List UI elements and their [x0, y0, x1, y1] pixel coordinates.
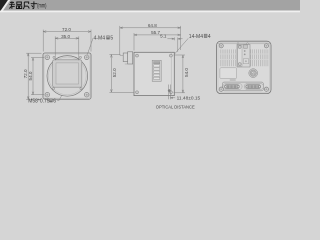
svg-text:55.7: 55.7: [151, 30, 160, 35]
svg-text:(mm): (mm): [37, 3, 46, 10]
svg-text:14-M4: 14-M4: [189, 34, 203, 40]
svg-text:54.0: 54.0: [184, 68, 189, 77]
svg-text:4-M4: 4-M4: [94, 36, 106, 42]
svg-text:35.0: 35.0: [61, 34, 70, 39]
svg-text:OPTICAL DISTANCE: OPTICAL DISTANCE: [156, 105, 195, 111]
svg-text:6: 6: [53, 98, 56, 104]
svg-text:54.0: 54.0: [28, 71, 33, 80]
svg-text:M58*0.75: M58*0.75: [28, 98, 50, 104]
svg-text:52.0: 52.0: [112, 68, 117, 77]
svg-text:11.48±0.15: 11.48±0.15: [177, 96, 201, 102]
svg-text:4: 4: [208, 34, 211, 40]
svg-text:5: 5: [110, 36, 113, 42]
svg-text:72.0: 72.0: [62, 27, 71, 32]
svg-text:64.8: 64.8: [148, 23, 157, 28]
svg-text:5.1: 5.1: [160, 34, 167, 39]
